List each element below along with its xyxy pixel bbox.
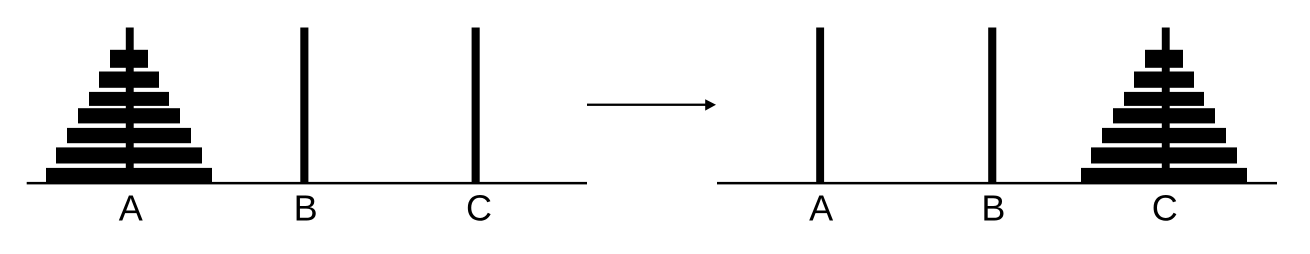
right disc 4 on C [1113,108,1215,123]
left disc 6 on A [56,147,202,163]
svg-text:C: C [466,187,492,228]
right peg C [1162,28,1170,183]
right base line [717,182,1277,185]
left disc 1 on A [110,50,148,68]
right peg B [988,28,996,183]
right peg A [816,28,824,183]
left peg A [126,28,134,183]
left disc 2 on A [99,72,159,88]
right disc 5 on C [1102,128,1226,143]
right disc 6 on C [1091,147,1237,163]
right disc 3 on C [1124,92,1204,106]
svg-text:B: B [981,187,1005,228]
right disc 2 on C [1134,72,1194,88]
left base line [27,182,587,185]
arrow head [705,99,716,110]
left disc 5 on A [67,128,191,143]
svg-text:A: A [119,187,143,228]
svg-text:B: B [294,187,318,228]
right disc 7 on C [1081,168,1247,182]
right disc 1 on C [1145,50,1183,68]
left peg B [300,28,308,183]
left disc 7 on A [46,168,212,182]
left disc 3 on A [89,92,169,106]
svg-text:C: C [1152,187,1178,228]
svg-text:A: A [809,187,833,228]
left peg C [472,28,480,183]
arrow shaft [587,104,706,106]
left disc 4 on A [78,108,180,123]
